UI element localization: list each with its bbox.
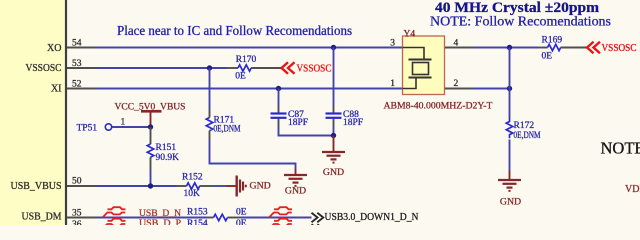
- diff pair marker row36 left: [103, 219, 126, 229]
- svg-text:USB_DM: USB_DM: [22, 212, 62, 223]
- svg-text:1: 1: [121, 117, 126, 127]
- port row36 chevron: [312, 224, 324, 229]
- capacitor C88: [326, 106, 364, 129]
- resistor R170: [227, 55, 282, 82]
- junction rail x333.5: [331, 133, 336, 138]
- ground below caps: [322, 136, 345, 179]
- port USB3.0_DOWN1_D_N: [312, 212, 419, 223]
- power port VSSOSC right: [587, 42, 637, 54]
- resistor R151: [147, 127, 179, 186]
- svg-text:NOTE: Follow Recomendations: NOTE: Follow Recomendations: [430, 14, 611, 29]
- pin USB_DM 35: [22, 208, 98, 222]
- wire vertical x509.5: [509, 48, 511, 119]
- resistor R169: [538, 35, 587, 61]
- resistor R152: [177, 173, 227, 199]
- junction VBUS x150.5: [148, 183, 153, 188]
- svg-text:USB_VBUS: USB_VBUS: [11, 181, 62, 192]
- svg-text:NOTE: NOTE: [601, 138, 640, 157]
- junction row3 x509.5: [507, 86, 512, 91]
- svg-text:Place near to IC and Follow Re: Place near to IC and Follow Recomendatio…: [117, 23, 352, 38]
- IC U1 body: [0, 0, 66, 225]
- svg-text:1: 1: [390, 79, 395, 89]
- diff pair marker row36 right: [269, 219, 292, 229]
- resistor R153: [187, 208, 247, 221]
- test point TP51: [77, 117, 151, 133]
- wire row1 XO to crystal: [97, 47, 403, 49]
- pin 36: [67, 220, 97, 230]
- svg-text:0E: 0E: [235, 72, 246, 82]
- svg-text:VDD: VDD: [625, 184, 640, 195]
- svg-text:R154: R154: [187, 219, 208, 225]
- svg-text:Y4: Y4: [404, 29, 416, 39]
- svg-text:R152: R152: [182, 173, 203, 183]
- svg-text:4: 4: [454, 39, 459, 49]
- svg-text:GND: GND: [250, 181, 271, 192]
- power port VSSOSC mid: [282, 62, 332, 74]
- svg-text:50: 50: [72, 177, 82, 187]
- svg-text:VSSOSC: VSSOSC: [602, 43, 637, 54]
- svg-text:TP51: TP51: [77, 123, 98, 133]
- pin XO 54: [47, 39, 97, 54]
- junction row2 x209.5: [207, 65, 212, 70]
- wire vertical x333.5 to C88: [333, 48, 335, 106]
- wire USB_VBUS row: [97, 185, 177, 187]
- svg-text:VSSOSC: VSSOSC: [297, 63, 332, 74]
- junction row3 x278.5: [276, 86, 281, 91]
- svg-text:36: 36: [72, 220, 82, 225]
- svg-text:GND: GND: [323, 167, 344, 178]
- svg-text:R172: R172: [514, 121, 535, 131]
- wire USB_DM row 35: [97, 217, 207, 219]
- wire R171 to ground: [210, 140, 296, 169]
- svg-text:USB_D_P: USB_D_P: [139, 219, 181, 225]
- wire row1 crystal pin4 stub: [445, 47, 474, 49]
- diff pair marker row35 right: [269, 207, 292, 217]
- svg-text:52: 52: [72, 79, 82, 89]
- diff pair marker row35 left: [103, 207, 126, 217]
- svg-text:3: 3: [390, 39, 395, 49]
- svg-text:XI: XI: [51, 84, 62, 95]
- junction row1 x509.5: [507, 45, 512, 50]
- svg-text:0E: 0E: [236, 208, 247, 218]
- svg-text:USB_D_N: USB_D_N: [139, 209, 181, 219]
- svg-text:35: 35: [72, 208, 82, 218]
- wire row2 VSSOSC: [97, 67, 227, 69]
- svg-text:90.9K: 90.9K: [156, 153, 180, 163]
- pin USB_VBUS 50: [11, 177, 98, 192]
- svg-text:0E,DNM: 0E,DNM: [214, 124, 241, 134]
- svg-text:2: 2: [454, 79, 459, 89]
- resistor R171: [206, 109, 241, 140]
- svg-text:53: 53: [72, 59, 82, 69]
- wire row1 right: [473, 47, 538, 49]
- wire crystal pin2 stub: [445, 88, 474, 90]
- svg-text:ABM8-40.000MHZ-D2Y-T: ABM8-40.000MHZ-D2Y-T: [384, 101, 493, 112]
- wire vertical x209.5 R171 branch: [209, 68, 211, 109]
- wire cap bottom rail: [279, 126, 334, 136]
- pin VSSOSC 53: [26, 59, 98, 74]
- pin XI 52: [51, 79, 97, 94]
- svg-text:R153: R153: [187, 208, 208, 218]
- junction TP51 x150.5: [148, 124, 153, 129]
- junction row1 x333.5: [331, 45, 336, 50]
- ground below R172: [498, 171, 521, 208]
- capacitor C87: [271, 106, 309, 129]
- svg-text:R151: R151: [156, 143, 177, 153]
- wire row3 right: [473, 88, 510, 90]
- svg-text:R170: R170: [236, 55, 257, 65]
- power port VCC_5V0_VBUS: [115, 102, 186, 127]
- svg-text:USB3.0_DOWN1_D_N: USB3.0_DOWN1_D_N: [325, 212, 419, 223]
- svg-text:R169: R169: [542, 35, 563, 45]
- svg-text:0E: 0E: [236, 219, 247, 225]
- svg-text:0E: 0E: [542, 52, 553, 62]
- svg-text:10K: 10K: [184, 189, 201, 199]
- ground below R171: [284, 169, 307, 197]
- resistor R154: [187, 219, 247, 229]
- svg-text:GND: GND: [500, 197, 521, 208]
- svg-text:XO: XO: [47, 43, 61, 54]
- wire vertical x278.5 to C87: [278, 89, 280, 106]
- svg-text:0E,DNM: 0E,DNM: [514, 131, 541, 141]
- wire row35 right: [241, 217, 312, 219]
- resistor R172: [506, 118, 541, 171]
- svg-text:54: 54: [72, 39, 82, 49]
- crystal Y4: [384, 29, 493, 111]
- svg-text:18PF: 18PF: [343, 118, 363, 128]
- svg-text:VSSOSC: VSSOSC: [26, 63, 62, 74]
- svg-text:18PF: 18PF: [288, 118, 308, 128]
- wire row3 XI to crystal: [97, 88, 403, 90]
- ground flag right of R152: [226, 176, 271, 197]
- svg-text:GND: GND: [285, 186, 306, 197]
